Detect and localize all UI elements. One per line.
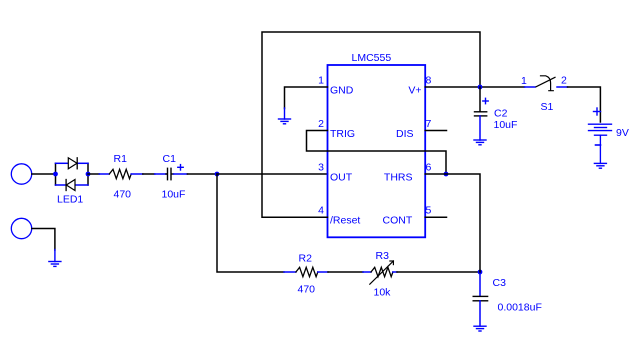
pin 5 CONT stub — [425, 216, 446, 218]
svg-text:7: 7 — [426, 118, 432, 130]
svg-text:DIS: DIS — [396, 128, 414, 140]
svg-text:470: 470 — [114, 189, 132, 201]
svg-text:10uF: 10uF — [162, 189, 186, 201]
svg-text:3: 3 — [318, 162, 324, 174]
resistor R2 — [284, 271, 296, 273]
battery B1 9V — [589, 124, 612, 163]
svg-text:9V: 9V — [616, 127, 629, 139]
wire node A to pin3 OUT — [217, 173, 328, 175]
wire LED1 to R1 — [88, 173, 99, 175]
svg-text:LED1: LED1 — [57, 194, 83, 206]
svg-text:8: 8 — [426, 75, 432, 87]
node B (THRS/C3 junction) — [478, 270, 483, 275]
wire R3 to node B — [397, 271, 480, 273]
pin 7 DIS stub — [425, 130, 446, 132]
svg-text:2: 2 — [561, 75, 567, 87]
svg-text:R2: R2 — [299, 253, 313, 265]
resistor R1 — [109, 169, 131, 178]
svg-text:C2: C2 — [494, 108, 508, 120]
minus mark battery — [596, 144, 601, 146]
plus mark battery — [594, 108, 601, 115]
wire C1 to node A — [187, 173, 217, 175]
svg-text:5: 5 — [426, 205, 432, 217]
svg-text:R3: R3 — [376, 250, 390, 262]
capacitor C3 — [479, 272, 481, 296]
svg-text:1: 1 — [318, 75, 324, 87]
wire R2 to R3 — [328, 271, 363, 273]
capacitor C1 — [166, 168, 174, 179]
LED1 (anti-parallel pair) — [53, 158, 90, 191]
node D (V+ / C2 junction) — [478, 85, 483, 90]
svg-text:470: 470 — [298, 284, 316, 296]
IC U1 LMC555 box — [328, 65, 426, 237]
svg-text:OUT: OUT — [330, 172, 353, 184]
wire node A down to R2 rail — [217, 174, 284, 272]
wire switch to battery — [568, 87, 601, 122]
node A (OUT junction) — [215, 172, 220, 177]
switch S1 — [525, 86, 536, 88]
svg-text:TRIG: TRIG — [330, 128, 355, 140]
plus mark C1 — [178, 165, 183, 170]
ground (battery) — [594, 163, 606, 168]
svg-text:THRS: THRS — [384, 172, 413, 184]
svg-text:V+: V+ — [408, 85, 421, 97]
svg-text:S1: S1 — [541, 101, 554, 113]
pin 1 GND wire to ground — [285, 87, 328, 109]
wire J2 to ground — [32, 229, 55, 251]
svg-text:/Reset: /Reset — [330, 215, 360, 227]
svg-text:4: 4 — [318, 205, 324, 217]
ground (pin1) — [279, 108, 291, 124]
svg-text:1: 1 — [521, 75, 527, 87]
connector J2 (lower terminal circle) — [11, 218, 31, 238]
svg-text:R1: R1 — [114, 153, 128, 165]
svg-text:2: 2 — [318, 118, 324, 130]
svg-text:6: 6 — [426, 162, 432, 174]
potentiometer R3 — [371, 267, 393, 276]
pin 6 THRS wire down to node B — [425, 174, 480, 272]
wire J1 to LED1 — [32, 173, 56, 175]
ground (J2) — [49, 250, 61, 267]
ground (C3) — [474, 326, 486, 331]
svg-text:10uF: 10uF — [494, 119, 518, 131]
pin 2 TRIG loop wire to THRS — [307, 131, 447, 175]
node C (TRIG/THRS junction) — [444, 172, 449, 177]
svg-text:C1: C1 — [163, 153, 177, 165]
connector J1 (input terminal circle) — [11, 164, 31, 184]
svg-text:0.0018uF: 0.0018uF — [498, 302, 542, 314]
svg-text:10k: 10k — [374, 287, 392, 299]
capacitor C2 — [479, 87, 481, 112]
svg-text:CONT: CONT — [383, 215, 413, 227]
svg-text:LMC555: LMC555 — [352, 52, 392, 64]
svg-text:GND: GND — [330, 85, 354, 97]
plus mark C2 — [483, 98, 488, 103]
svg-text:C3: C3 — [493, 277, 507, 289]
pin 4 /Reset wire loop to V+ — [262, 32, 480, 217]
wire R1 to C1 — [143, 173, 155, 175]
pin 8 V+ rail to switch — [425, 86, 524, 88]
ground (C2) — [474, 140, 486, 145]
